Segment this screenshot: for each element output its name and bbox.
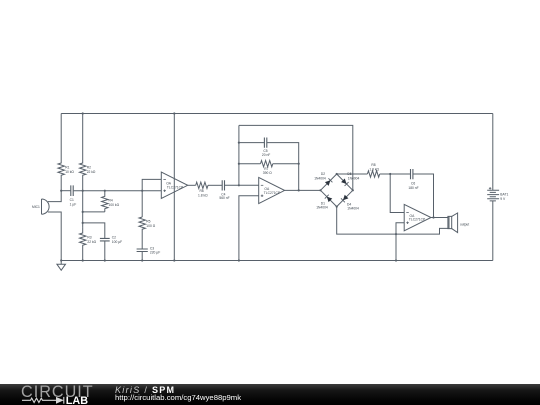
- wire: mic bottom lead: [48, 212, 61, 261]
- resistor R7: [261, 161, 273, 176]
- resistor R8: [367, 163, 379, 177]
- microphone MIC1: [32, 199, 49, 214]
- wire: R8 to C6 node: [380, 173, 411, 175]
- svg-text:TLC271CP: TLC271CP: [264, 191, 281, 195]
- wire: op1 power pins vertical: [173, 114, 175, 261]
- wire: mid vertical x=82.7: [82, 191, 84, 228]
- svg-text:1N4004: 1N4004: [316, 206, 328, 210]
- wire: R4 bottom to mid vertical: [83, 211, 105, 213]
- node: A / R5 branch: [141, 190, 143, 192]
- wire: C5 branch left: [239, 142, 264, 144]
- battery BAT1: [487, 187, 508, 201]
- capacitor C1: [70, 185, 77, 206]
- svg-text:R2: R2: [87, 166, 91, 170]
- capacitor C2: [100, 236, 122, 244]
- node: bridge bottom vertex: [336, 206, 338, 208]
- ground: [57, 261, 66, 271]
- svg-text:R1: R1: [65, 166, 69, 170]
- svg-text:560 nF: 560 nF: [219, 196, 229, 200]
- wire: mic top lead: [48, 191, 61, 202]
- svg-text:100 kΩ: 100 kΩ: [109, 203, 120, 207]
- svg-text:D2: D2: [321, 172, 325, 176]
- svg-text:output: output: [460, 222, 469, 226]
- svg-text:TLC271CP: TLC271CP: [167, 186, 184, 190]
- wire: feedback right vertical to output: [298, 164, 300, 191]
- wire: C5 branch right: [267, 143, 299, 164]
- wire: bridge top vertex to R8: [337, 173, 368, 175]
- svg-text:22 kΩ: 22 kΩ: [87, 170, 96, 174]
- svg-text:1N4004: 1N4004: [348, 176, 360, 180]
- op-amp OA1: [161, 172, 187, 198]
- node: rail / op2 +: [238, 259, 240, 261]
- resistor R2: [80, 114, 96, 191]
- svg-text:22 kΩ: 22 kΩ: [87, 240, 96, 244]
- node: R7 left: [238, 163, 240, 165]
- wire: right supply vertical (battery bottom): [492, 201, 494, 261]
- resistor R1: [58, 114, 74, 191]
- node: feedback right / R7: [298, 163, 300, 165]
- wire: op3 output to speaker: [431, 217, 448, 219]
- svg-text:390 Ω: 390 Ω: [263, 171, 272, 175]
- wire: C6 right to op3 output: [413, 174, 433, 218]
- wire: R6 to C4: [208, 184, 222, 186]
- svg-text:1 µF: 1 µF: [70, 202, 77, 206]
- node: bridge top vertex: [336, 173, 338, 175]
- CircuitLab logo: [0, 384, 110, 405]
- svg-text:R5: R5: [146, 219, 150, 223]
- wire: bottom common rail: [61, 260, 493, 262]
- capacitor C5: [262, 138, 270, 158]
- svg-text:20 nF: 20 nF: [262, 153, 270, 157]
- diode D4 (bridge lower-right): [337, 190, 359, 210]
- diode D1 (bridge lower-left): [316, 190, 337, 209]
- wire: R7 branch left: [239, 163, 261, 165]
- node: rail / ground: [60, 259, 62, 261]
- node: mid vertical / R4 bottom: [82, 211, 84, 213]
- node: top rail / R2: [82, 112, 84, 114]
- svg-text:C1: C1: [70, 198, 74, 202]
- wire: op1 output: [188, 184, 196, 186]
- resistor R4: [102, 191, 120, 212]
- speaker SP1 (output): [448, 213, 469, 233]
- svg-text:180 nF: 180 nF: [408, 186, 418, 190]
- svg-text:1N4004: 1N4004: [314, 176, 326, 180]
- capacitor C4: [219, 180, 229, 200]
- node: A / R4 top: [104, 190, 106, 192]
- node: mid vertical / C2 branch: [82, 222, 84, 224]
- svg-text:LAB: LAB: [66, 395, 88, 405]
- wire: op3 inverting input branch: [390, 174, 404, 213]
- svg-text:1.8 kΩ: 1.8 kΩ: [369, 167, 379, 171]
- node: bridge left vertex: [319, 189, 321, 191]
- diode D2 (bridge upper-left): [314, 172, 337, 190]
- svg-text:MIC1: MIC1: [32, 205, 40, 209]
- svg-text:100 Ω: 100 Ω: [146, 224, 155, 228]
- wire: op3 non-inverting input to common: [396, 223, 404, 261]
- node: A / mic: [60, 190, 62, 192]
- capacitor C3: [137, 247, 161, 255]
- node: rail / R3: [82, 259, 84, 261]
- node: rail / C2: [104, 259, 106, 261]
- wire: feedback left vertical: [238, 125, 240, 185]
- wire: op2 output to bridge left vertex: [285, 189, 321, 191]
- wire: right supply vertical (battery top): [492, 114, 494, 191]
- node: C5 left: [238, 142, 240, 144]
- node: A / R2: [82, 190, 84, 192]
- wire: op1 inverting input to R5 branch: [142, 179, 161, 217]
- wire: C4 to op2 inverting node: [225, 184, 259, 186]
- node: R8 / C6 / op3 inverting: [389, 173, 391, 175]
- node: common crossing at op3 reference: [395, 233, 397, 235]
- svg-text:C6: C6: [411, 181, 415, 185]
- resistor R5: [139, 217, 156, 249]
- wire: C2 bottom to rail: [104, 241, 106, 260]
- wire: loop to bridge right vertex: [239, 125, 353, 190]
- svg-text:BAT1: BAT1: [500, 192, 508, 196]
- wire: bridge bottom vertex to common / speaker return: [337, 207, 448, 235]
- resistor R6: [196, 182, 208, 198]
- node: op2 inverting input: [238, 184, 240, 186]
- svg-text:TLC271CP: TLC271CP: [409, 218, 426, 222]
- svg-text:1N4004: 1N4004: [347, 206, 359, 210]
- wire: R3/C2 top link: [83, 223, 105, 238]
- svg-text:220 µF: 220 µF: [150, 250, 160, 254]
- credit text: [115, 385, 175, 395]
- svg-text:R6: R6: [200, 189, 204, 193]
- node: bridge right vertex: [352, 189, 354, 191]
- capacitor C6: [408, 169, 418, 190]
- node: op2 output / feedback: [298, 189, 300, 191]
- node: top rail / op1 V+: [173, 112, 175, 114]
- svg-text:100 µF: 100 µF: [112, 240, 122, 244]
- wire: R7 branch right: [273, 163, 299, 165]
- wire: input node A horizontal (C1 right to op1 +): [74, 190, 162, 192]
- svg-text:9 V: 9 V: [500, 197, 506, 201]
- footer bar: [0, 384, 540, 405]
- diode D5 (bridge upper-right): [337, 172, 360, 190]
- node: rail / op1 V-: [173, 259, 175, 261]
- svg-text:C2: C2: [112, 236, 116, 240]
- svg-text:1.8 kΩ: 1.8 kΩ: [198, 194, 208, 198]
- resistor R3: [80, 228, 97, 261]
- svg-text:R4: R4: [109, 199, 113, 203]
- op-amp OA3: [404, 204, 431, 230]
- node: op3 output / C6: [432, 216, 434, 218]
- wire: input node A horizontal (C1 left side): [61, 190, 70, 192]
- node: rail / op3 reference: [395, 259, 397, 261]
- svg-text:10 kΩ: 10 kΩ: [65, 170, 74, 174]
- node: rail / C3: [141, 259, 143, 261]
- op-amp OA2: [259, 177, 285, 203]
- svg-text:R8: R8: [371, 163, 375, 167]
- svg-text:R3: R3: [87, 236, 91, 240]
- wire: top supply rail: [61, 113, 493, 115]
- wire: op2 non-inverting input to rail: [239, 196, 259, 261]
- wire: C3 bottom to rail: [141, 252, 143, 261]
